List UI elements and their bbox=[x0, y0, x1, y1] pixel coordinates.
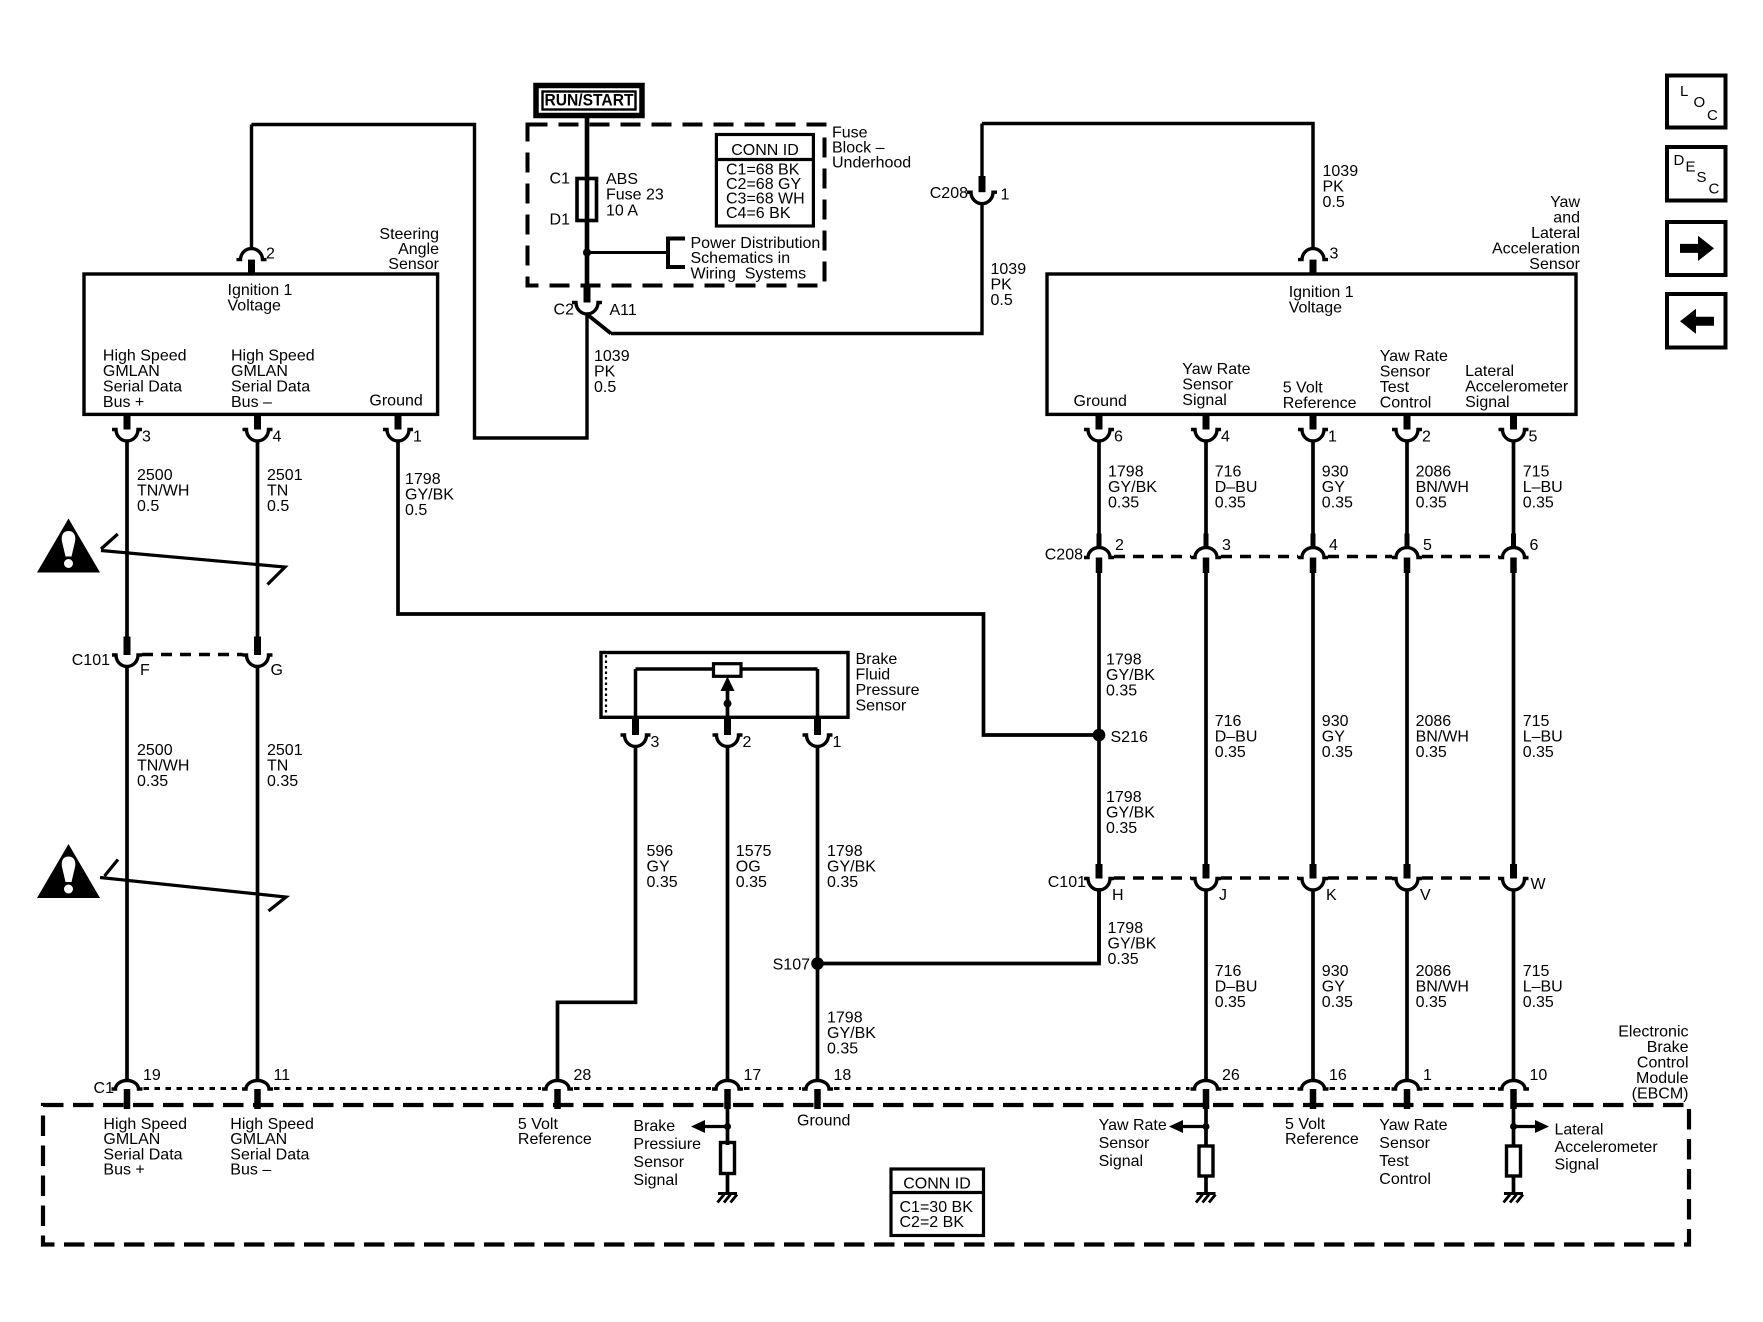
wire 2086 BN/WH lower bbox=[1405, 890, 1409, 1081]
label 1039 PK 0.5 left bbox=[594, 348, 630, 396]
svg-text:Ground: Ground bbox=[1074, 393, 1127, 410]
label Brake Fluid Pressure Sensor bbox=[856, 651, 920, 715]
BFPS pin 2 label bbox=[743, 734, 752, 751]
pin 4 label bbox=[273, 428, 282, 445]
EBCM pin 16 connector bbox=[1298, 1081, 1329, 1110]
svg-text:6: 6 bbox=[1530, 537, 1539, 554]
pin 10 resistor lead bbox=[1512, 1176, 1516, 1194]
label 2501 TN 0.35 bbox=[267, 742, 303, 790]
svg-text:A11: A11 bbox=[610, 302, 637, 319]
svg-text:C: C bbox=[1707, 107, 1718, 124]
pin 26 internal wire bbox=[1204, 1109, 1208, 1146]
wire 1575 OG bbox=[726, 747, 730, 1082]
yaw pin 4 connector bbox=[1191, 414, 1221, 441]
pin 26 junction bbox=[1203, 1123, 1210, 1130]
icon forward arrow bbox=[1667, 222, 1726, 275]
label 1798 GY/BK below H bbox=[1108, 920, 1157, 968]
label 1798 GY/BK 0.5 bbox=[405, 471, 454, 519]
svg-text:16: 16 bbox=[1329, 1067, 1347, 1084]
svg-text:G: G bbox=[271, 662, 283, 679]
label V bbox=[1420, 887, 1431, 904]
yaw pin 6 connector bbox=[1084, 414, 1114, 441]
svg-text:C208: C208 bbox=[930, 185, 968, 202]
label Ground (EBCM) bbox=[797, 1112, 850, 1129]
yaw pin 2 label bbox=[1422, 428, 1431, 445]
wire to power distribution note bbox=[587, 251, 668, 254]
connector C101 K bbox=[1298, 879, 1328, 891]
yaw pin 2 connector bbox=[1392, 414, 1422, 441]
wire 1039 PK branch to C208 bbox=[589, 204, 983, 334]
dashed connector line C208 bbox=[1221, 555, 1298, 558]
EBCM pin 26 label bbox=[1222, 1067, 1240, 1084]
wire 2501 TN lower bbox=[256, 667, 260, 1082]
label High Speed GMLAN Bus+ (EBCM) bbox=[103, 1116, 187, 1179]
label ABS Fuse 23 10 A bbox=[606, 171, 664, 220]
EBCM pin 10 connector bbox=[1498, 1081, 1529, 1110]
battery feed RUN/START bbox=[536, 86, 642, 116]
wire 1798 GY/BK upper bbox=[1097, 441, 1101, 534]
svg-text:Ground: Ground bbox=[369, 392, 422, 409]
svg-text:CONN ID: CONN ID bbox=[903, 1175, 971, 1192]
label High Speed GMLAN Bus- (steering) bbox=[231, 348, 315, 412]
svg-text:1: 1 bbox=[1001, 186, 1010, 203]
pin C1 label bbox=[550, 170, 571, 187]
power distribution bracket bbox=[668, 239, 685, 268]
pin 4 connector bbox=[243, 414, 273, 441]
dashed connector line C101 right bbox=[1114, 876, 1191, 879]
icon back arrow bbox=[1667, 294, 1726, 348]
pin 17 resistor lead bbox=[726, 1175, 730, 1194]
BFPS pin 2 connector bbox=[713, 717, 743, 746]
svg-text:E: E bbox=[1686, 159, 1696, 176]
svg-text:L: L bbox=[1680, 83, 1688, 100]
wire 716 D-BU upper bbox=[1204, 441, 1208, 534]
CONN ID table (EBCM) bbox=[891, 1169, 984, 1236]
dashed connector line C101 right bbox=[1422, 876, 1499, 879]
label 596 GY 0.35 bbox=[647, 843, 678, 891]
svg-text:18: 18 bbox=[834, 1067, 852, 1084]
connector C101 W stub bbox=[1510, 864, 1517, 879]
ground symbol pin 10 bbox=[1504, 1194, 1524, 1203]
svg-text:C1=30 BKC2=2 BK: C1=30 BKC2=2 BK bbox=[900, 1199, 974, 1231]
label S107 bbox=[773, 956, 810, 973]
svg-text:1: 1 bbox=[1328, 428, 1337, 445]
svg-text:V: V bbox=[1420, 887, 1431, 904]
connector C208 pin 3 bbox=[1191, 534, 1221, 574]
wire fuse to C2 bbox=[585, 221, 590, 288]
wire S107 to C101 H bbox=[818, 888, 1100, 964]
connector C208 pin 1 stub bbox=[979, 176, 986, 192]
connector C101 K stub bbox=[1310, 864, 1317, 879]
svg-text:F: F bbox=[140, 662, 150, 679]
label 5 Volt Reference (EBCM right) bbox=[1285, 1116, 1359, 1148]
steering angle sensor box bbox=[84, 274, 438, 414]
label C1 bottom bbox=[94, 1080, 115, 1097]
label High Speed GMLAN Bus- (EBCM) bbox=[230, 1116, 314, 1179]
pin 2 label bbox=[266, 245, 275, 262]
dashed connector line C101 left bbox=[142, 653, 243, 656]
svg-text:C1: C1 bbox=[550, 170, 571, 187]
label G bbox=[271, 662, 283, 679]
svg-text:RUN/START: RUN/START bbox=[545, 92, 634, 110]
yaw pin 1 connector bbox=[1298, 414, 1328, 441]
svg-text:10: 10 bbox=[1530, 1067, 1548, 1084]
EBCM pin 17 connector bbox=[712, 1081, 743, 1110]
svg-text:2: 2 bbox=[266, 245, 275, 262]
svg-text:5: 5 bbox=[1529, 428, 1538, 445]
brake fluid pressure sensor box bbox=[601, 653, 848, 718]
connector C101 G bbox=[243, 655, 273, 667]
label 1798 GY/BK above S107 bbox=[827, 843, 876, 891]
connector C208 pin 6 bbox=[1499, 534, 1529, 574]
pin 10 internal wire bbox=[1512, 1109, 1516, 1146]
svg-text:3: 3 bbox=[1330, 245, 1339, 262]
dashed connector line C101 right bbox=[1221, 876, 1298, 879]
label 2086 BN/WH 0.35 lower bbox=[1416, 963, 1469, 1011]
label Yaw and Lateral Acceleration Sensor bbox=[1492, 194, 1581, 273]
svg-text:S: S bbox=[1697, 169, 1707, 186]
pin 10 resistor bbox=[1507, 1146, 1521, 1176]
svg-text:3: 3 bbox=[142, 428, 151, 445]
label C208 top bbox=[930, 185, 968, 202]
EBCM pin 18 label bbox=[834, 1067, 852, 1084]
label 715 L-BU 0.35 middle bbox=[1523, 713, 1563, 761]
label 1798 GY/BK below S107 bbox=[827, 1009, 876, 1057]
label 1575 OG 0.35 bbox=[736, 843, 772, 891]
connector C101 J bbox=[1191, 879, 1221, 891]
svg-text:19: 19 bbox=[143, 1067, 161, 1084]
label Steering Angle Sensor bbox=[379, 226, 439, 273]
pin 2 connector bbox=[237, 249, 267, 274]
svg-text:S216: S216 bbox=[1111, 729, 1148, 746]
svg-text:Ground: Ground bbox=[797, 1112, 850, 1129]
wire 715 L-BU lower bbox=[1512, 890, 1516, 1081]
svg-text:4: 4 bbox=[1221, 428, 1230, 445]
label C101 right bbox=[1048, 874, 1086, 891]
label Lateral Accelerometer Signal (EBCM) bbox=[1555, 1121, 1659, 1173]
warning symbol 1 bbox=[37, 519, 100, 573]
pin 1 connector bbox=[383, 414, 413, 441]
connector C101 H bbox=[1084, 879, 1114, 891]
svg-text:4: 4 bbox=[1329, 537, 1338, 554]
wire 1798 GY/BK H below bbox=[1097, 890, 1101, 964]
svg-text:C101: C101 bbox=[1048, 874, 1086, 891]
svg-text:S107: S107 bbox=[773, 956, 810, 973]
EBCM pin 18 connector bbox=[802, 1081, 833, 1110]
label F bbox=[140, 662, 150, 679]
pin 3 connector bbox=[112, 414, 142, 441]
wire 2501 TN upper bbox=[256, 441, 260, 637]
label Electronic Brake Control Module (EBCM) bbox=[1618, 1023, 1688, 1102]
dashed connector line C208 bbox=[1328, 555, 1392, 558]
svg-text:W: W bbox=[1531, 876, 1547, 893]
svg-text:2: 2 bbox=[743, 734, 752, 751]
wire 596 GY bbox=[558, 747, 636, 1082]
svg-text:C1: C1 bbox=[94, 1080, 115, 1097]
EBCM pin 1 connector bbox=[1392, 1081, 1423, 1110]
label 2086 BN/WH 0.35 middle bbox=[1416, 713, 1469, 761]
C208 pin 6 label bbox=[1530, 537, 1539, 554]
label Ground (yaw) bbox=[1074, 393, 1127, 410]
C208 pin 4 label bbox=[1329, 537, 1338, 554]
pin 26 resistor bbox=[1199, 1146, 1213, 1176]
wire 1798 GY/BK to S216 bbox=[1097, 573, 1101, 864]
svg-text:1: 1 bbox=[413, 428, 422, 445]
svg-text:CONN ID: CONN ID bbox=[731, 142, 799, 159]
icon LOC bbox=[1667, 76, 1726, 128]
label Power Distribution Schematics bbox=[691, 235, 821, 282]
label 716 D-BU 0.35 lower bbox=[1215, 963, 1258, 1011]
harness crossing flash 1 bbox=[101, 534, 285, 585]
label W bbox=[1531, 876, 1547, 893]
EBCM pin 26 connector bbox=[1191, 1081, 1222, 1110]
label 5 Volt Reference (yaw) bbox=[1283, 379, 1357, 412]
EBCM pin 1 label bbox=[1423, 1067, 1432, 1084]
label 2500 TN/WH 0.35 bbox=[137, 742, 189, 790]
harness crossing flash 2 bbox=[100, 860, 286, 912]
wiper arrow bbox=[721, 677, 735, 718]
BFPS pin 1 label bbox=[833, 734, 842, 751]
label 715 L-BU 0.35 lower bbox=[1523, 963, 1563, 1011]
svg-text:26: 26 bbox=[1222, 1067, 1240, 1084]
label Fuse Block - Underhood bbox=[832, 124, 911, 171]
icon DESC bbox=[1667, 147, 1726, 201]
connector C101 H stub bbox=[1096, 864, 1103, 879]
wire 2500 TN/WH upper bbox=[125, 441, 129, 637]
connector C101 F stub bbox=[124, 637, 131, 656]
fuse block - underhood dashed box bbox=[528, 125, 825, 286]
connector C2 pin A11 stub bbox=[584, 287, 591, 303]
pin 1 label bbox=[1001, 186, 1010, 203]
EBCM pin 11 connector bbox=[242, 1081, 273, 1110]
label 930 GY 0.35 middle bbox=[1322, 713, 1353, 761]
pin 17 arrow bbox=[691, 1120, 728, 1133]
CONN ID table (fuse block) bbox=[716, 135, 813, 227]
svg-text:17: 17 bbox=[744, 1067, 762, 1084]
connector C2 pin A11 bbox=[572, 303, 602, 315]
connector C101 F bbox=[112, 655, 142, 667]
EBCM pin 16 label bbox=[1329, 1067, 1347, 1084]
label 1798 GY/BK 0.35 upper bbox=[1108, 463, 1157, 511]
label Brake Pressiure Sensor Signal bbox=[633, 1118, 701, 1189]
label Yaw Rate Sensor Test Control (yaw) bbox=[1380, 348, 1448, 412]
connector C101 J stub bbox=[1203, 864, 1210, 879]
EBCM pin 28 label bbox=[574, 1067, 592, 1084]
wire 2086 BN/WH upper bbox=[1405, 441, 1409, 534]
label 2086 BN/WH 0.35 upper bbox=[1416, 463, 1469, 511]
label Lateral Accelerometer Signal (yaw) bbox=[1465, 363, 1569, 411]
connector C208 pin 4 bbox=[1298, 534, 1328, 574]
label A11 bbox=[610, 302, 637, 319]
wire RUN/START to fuse bbox=[585, 116, 590, 179]
svg-text:2: 2 bbox=[1115, 537, 1124, 554]
label Yaw Rate Sensor Signal (yaw) bbox=[1182, 361, 1250, 409]
wire 716 D-BU lower bbox=[1204, 890, 1208, 1081]
connector C101 V stub bbox=[1404, 864, 1411, 879]
EBCM pin 17 label bbox=[744, 1067, 762, 1084]
wire 1039 PK to yaw sensor bbox=[982, 124, 1313, 250]
connector C101 W bbox=[1499, 879, 1529, 891]
junction on fuse output bbox=[583, 249, 591, 257]
label Yaw Rate Sensor Test Control (EBCM) bbox=[1379, 1117, 1447, 1188]
warning symbol 2 bbox=[37, 844, 100, 898]
label K bbox=[1326, 887, 1337, 904]
pin 10 arrow bbox=[1514, 1120, 1550, 1133]
splice S216 bbox=[1093, 729, 1106, 742]
wire 2086 BN/WH middle bbox=[1405, 573, 1409, 864]
svg-text:C: C bbox=[1709, 181, 1720, 198]
wire 930 GY lower bbox=[1311, 890, 1315, 1081]
wire 715 L-BU upper bbox=[1512, 441, 1516, 534]
dashed connector line C208 bbox=[1114, 555, 1191, 558]
pin 3 label bbox=[142, 428, 151, 445]
dotted connector line C1/C2 bbox=[144, 1087, 1498, 1090]
svg-text:5: 5 bbox=[1423, 537, 1432, 554]
wire 1798 GY/BK pin1 bbox=[816, 747, 820, 1082]
label C101 left bbox=[72, 652, 110, 669]
label 5 Volt Reference (EBCM left) bbox=[518, 1116, 592, 1148]
wire 2500 TN/WH lower bbox=[125, 667, 129, 1082]
label 930 GY 0.35 upper bbox=[1322, 463, 1353, 511]
pin 26 arrow bbox=[1169, 1120, 1206, 1133]
svg-text:11: 11 bbox=[274, 1067, 291, 1084]
label J bbox=[1219, 887, 1227, 904]
svg-text:3: 3 bbox=[651, 734, 660, 751]
svg-text:K: K bbox=[1326, 887, 1337, 904]
ground symbol pin 17 bbox=[718, 1194, 738, 1203]
svg-text:O: O bbox=[1694, 94, 1706, 111]
label 1798 GY/BK mid bbox=[1106, 652, 1155, 700]
yaw pin 4 label bbox=[1221, 428, 1230, 445]
wire pin2 into arc bbox=[250, 125, 253, 250]
label 1798 GY/BK below S216 bbox=[1106, 789, 1155, 837]
yaw pin 6 label bbox=[1114, 428, 1123, 445]
C208 pin 3 label bbox=[1222, 537, 1231, 554]
wire 1798 GY/BK 0.5 ground run bbox=[398, 441, 1094, 735]
connector C101 G stub bbox=[254, 637, 261, 656]
label 716 D-BU 0.35 upper bbox=[1215, 463, 1258, 511]
EBCM pin 11 label bbox=[274, 1067, 291, 1084]
label Ignition 1 Voltage (yaw) bbox=[1289, 284, 1354, 317]
label High Speed GMLAN Bus+ (steering) bbox=[103, 348, 187, 412]
svg-text:1: 1 bbox=[833, 734, 842, 751]
C208 pin 5 label bbox=[1423, 537, 1432, 554]
pin 1 label bbox=[413, 428, 422, 445]
splice S107 bbox=[811, 957, 824, 970]
svg-text:6: 6 bbox=[1114, 428, 1123, 445]
EBCM dashed box bbox=[43, 1105, 1689, 1245]
svg-text:D1: D1 bbox=[550, 211, 571, 228]
pressure sensor element bbox=[636, 664, 818, 717]
label 716 D-BU 0.35 middle bbox=[1215, 713, 1258, 761]
connector C208 pin 5 bbox=[1392, 534, 1422, 574]
label 715 L-BU 0.35 upper bbox=[1523, 463, 1563, 511]
svg-text:C2: C2 bbox=[554, 301, 575, 318]
pin 17 junction bbox=[724, 1123, 731, 1130]
pin D1 label bbox=[550, 211, 571, 228]
dashed connector line C101 right bbox=[1328, 876, 1392, 879]
svg-text:H: H bbox=[1112, 887, 1124, 904]
wire 715 L-BU middle bbox=[1512, 573, 1516, 864]
yaw pin 3 label bbox=[1330, 245, 1339, 262]
label 930 GY 0.35 lower bbox=[1322, 963, 1353, 1011]
connector C208 pin 1 bbox=[967, 192, 997, 204]
connector C101 V bbox=[1392, 879, 1422, 890]
pin 17 resistor bbox=[721, 1143, 735, 1174]
yaw and lateral acceleration sensor box bbox=[1047, 274, 1576, 414]
connector C208 pin 2 bbox=[1084, 534, 1114, 574]
label S216 bbox=[1111, 729, 1148, 746]
label 2500 TN/WH 0.5 bbox=[137, 467, 189, 515]
ground symbol pin 26 bbox=[1196, 1194, 1216, 1203]
BFPS pin 1 connector bbox=[803, 717, 833, 746]
label 2501 TN 0.5 bbox=[267, 467, 303, 515]
pin 17 internal wire bbox=[726, 1109, 730, 1145]
wire 1039 PK to steering sensor bbox=[252, 125, 588, 439]
EBCM pin 28 connector bbox=[542, 1081, 573, 1110]
BFPS pin 3 connector bbox=[621, 717, 651, 746]
dashed connector line C208 bbox=[1422, 555, 1499, 558]
wire 930 GY middle bbox=[1311, 573, 1315, 864]
yaw pin 1 label bbox=[1328, 428, 1337, 445]
label 1039 PK 0.5 right bbox=[1323, 163, 1359, 211]
pin 10 junction bbox=[1510, 1123, 1517, 1130]
wiper junction bbox=[724, 700, 732, 708]
label 1039 PK 0.5 mid bbox=[991, 261, 1027, 309]
label Ignition 1 Voltage (steering) bbox=[228, 282, 293, 315]
svg-text:C101: C101 bbox=[72, 652, 110, 669]
svg-text:28: 28 bbox=[574, 1067, 592, 1084]
C208 pin 2 label bbox=[1115, 537, 1124, 554]
yaw pin 3 connector bbox=[1298, 249, 1328, 274]
label H bbox=[1112, 887, 1124, 904]
wire 716 D-BU middle bbox=[1204, 573, 1208, 864]
svg-text:2: 2 bbox=[1422, 428, 1431, 445]
EBCM pin 19 connector bbox=[112, 1081, 143, 1110]
svg-text:3: 3 bbox=[1222, 537, 1231, 554]
svg-text:1: 1 bbox=[1423, 1067, 1432, 1084]
wire 930 GY upper bbox=[1311, 441, 1315, 534]
svg-text:J: J bbox=[1219, 887, 1227, 904]
yaw pin 5 connector bbox=[1499, 414, 1529, 441]
fuse F23 ABS 10A bbox=[577, 178, 597, 221]
pin 26 resistor lead bbox=[1204, 1176, 1208, 1194]
svg-text:4: 4 bbox=[273, 428, 282, 445]
EBCM pin 10 label bbox=[1530, 1067, 1548, 1084]
svg-text:D: D bbox=[1674, 152, 1685, 169]
label C208 bbox=[1045, 546, 1083, 563]
svg-text:C208: C208 bbox=[1045, 546, 1083, 563]
BFPS pin 3 label bbox=[651, 734, 660, 751]
EBCM pin 19 label bbox=[143, 1067, 161, 1084]
label Yaw Rate Sensor Signal (EBCM) bbox=[1099, 1117, 1167, 1170]
yaw pin 5 label bbox=[1529, 428, 1538, 445]
label Ground (steering) bbox=[369, 392, 422, 409]
label C2 bbox=[554, 301, 575, 318]
